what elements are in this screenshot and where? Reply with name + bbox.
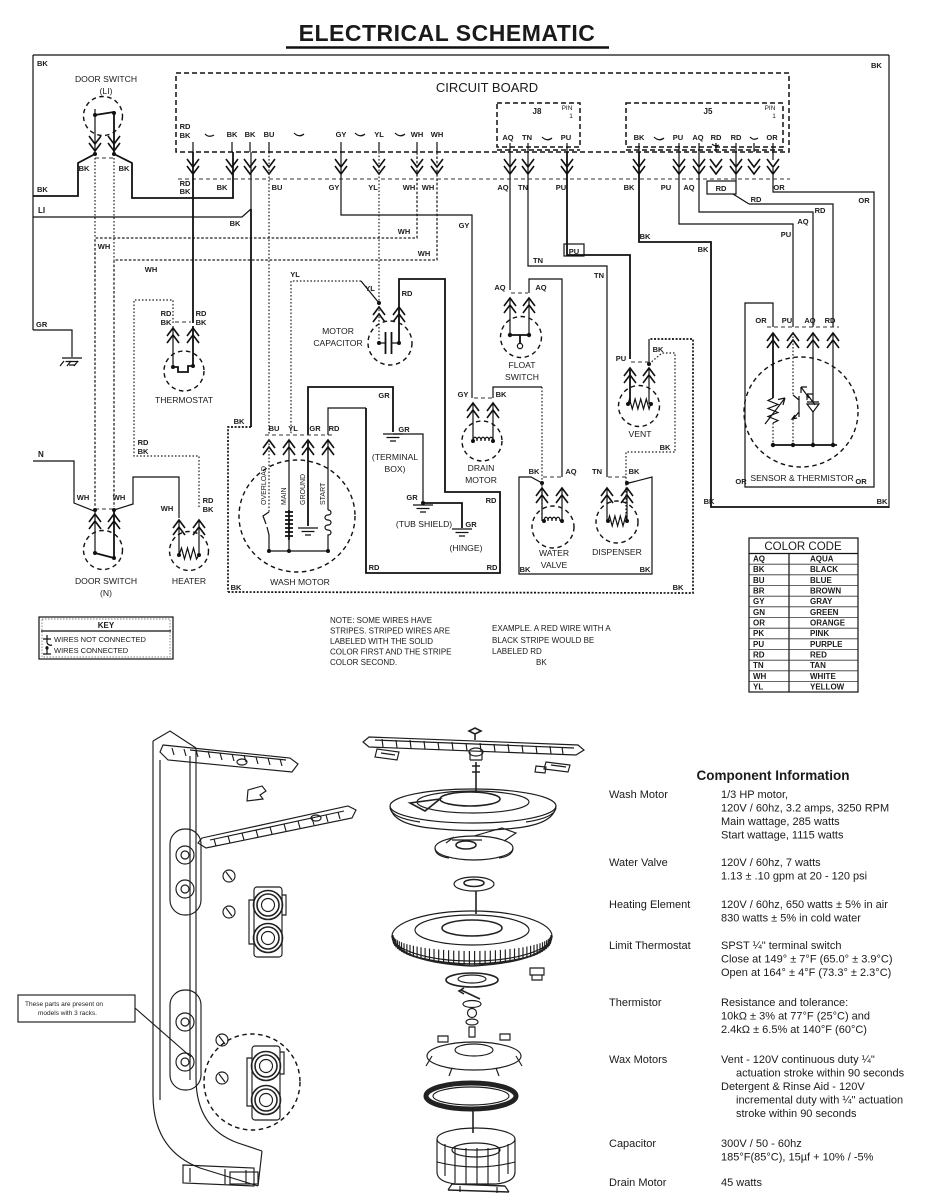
water valve solenoid dashed circle: [532, 506, 574, 548]
svg-text:WASH MOTOR: WASH MOTOR: [270, 577, 330, 587]
svg-text:RD: RD: [716, 184, 727, 193]
wire WH heater to door switch N: [114, 477, 179, 518]
svg-text:300V / 50 - 60hz: 300V / 50 - 60hz: [721, 1138, 802, 1150]
float switch S2 dashed circle: [501, 317, 542, 358]
wire TN J8 run to dispenser: [528, 152, 607, 477]
svg-text:RD: RD: [161, 309, 172, 318]
svg-text:OVERLOAD: OVERLOAD: [261, 466, 268, 505]
opto transistor Q1: [792, 333, 794, 395]
svg-text:AQ: AQ: [692, 133, 703, 142]
heater R1 dashed circle: [170, 532, 209, 571]
key symbol wires not connected: [43, 635, 52, 645]
svg-text:DISPENSER: DISPENSER: [592, 547, 642, 557]
svg-text:YL: YL: [365, 284, 375, 293]
wire GY from circuit board to drain motor: [341, 152, 472, 398]
svg-text:START: START: [320, 482, 327, 505]
svg-text:TAN: TAN: [810, 661, 826, 670]
upper dome (spray support): [390, 789, 556, 823]
svg-text:EXAMPLE. A RED WIRE WITH A: EXAMPLE. A RED WIRE WITH A: [492, 624, 611, 633]
svg-text:YL: YL: [290, 270, 300, 279]
water valve stub: [543, 476, 561, 478]
squiggle hooks between pins: [205, 133, 758, 146]
boxed RD label under J5: [707, 181, 736, 194]
svg-text:THERMOSTAT: THERMOSTAT: [155, 395, 214, 405]
svg-text:RD: RD: [487, 563, 498, 572]
svg-text:WH: WH: [113, 493, 126, 502]
svg-text:PINK: PINK: [810, 629, 829, 638]
wash motor bottom bus: [269, 550, 328, 552]
svg-text:PU: PU: [781, 230, 791, 239]
svg-text:AQUA: AQUA: [810, 555, 834, 564]
vent stub: [631, 361, 648, 363]
svg-text:BK: BK: [180, 187, 191, 196]
svg-text:PU: PU: [561, 133, 571, 142]
svg-text:YL: YL: [368, 183, 378, 192]
svg-text:BK: BK: [877, 497, 888, 506]
svg-text:BK: BK: [227, 130, 238, 139]
thermostat S1 dashed circle: [164, 351, 204, 391]
svg-text:RD: RD: [203, 496, 214, 505]
svg-text:GY: GY: [329, 183, 340, 192]
svg-text:WIRES NOT CONNECTED: WIRES NOT CONNECTED: [54, 635, 147, 644]
dashed highlight circle: [204, 1034, 300, 1130]
svg-text:Heating Element: Heating Element: [609, 899, 690, 911]
svg-text:COLOR SECOND.: COLOR SECOND.: [330, 658, 397, 667]
svg-text:BK: BK: [138, 447, 149, 456]
svg-text:PIN: PIN: [765, 105, 776, 112]
svg-text:RED: RED: [810, 651, 827, 660]
svg-text:WH: WH: [753, 672, 767, 681]
svg-text:PU: PU: [661, 183, 671, 192]
svg-text:BK: BK: [640, 232, 651, 241]
svg-text:AQ: AQ: [535, 283, 546, 292]
svg-text:Resistance and tolerance:: Resistance and tolerance:: [721, 997, 848, 1009]
door switch N terminal stub: [95, 508, 114, 510]
svg-text:GY: GY: [753, 597, 765, 606]
svg-text:1: 1: [569, 113, 573, 120]
svg-text:120V / 60hz, 3.2 amps, 3250 RP: 120V / 60hz, 3.2 amps, 3250 RPM: [721, 803, 889, 815]
svg-text:WATER: WATER: [539, 548, 569, 558]
svg-text:LI: LI: [38, 206, 45, 215]
float switch contacts: [509, 298, 511, 335]
svg-text:BK: BK: [180, 131, 191, 140]
pin stubs crossing board edge: [193, 142, 773, 152]
svg-text:BK: BK: [624, 183, 635, 192]
svg-text:RD: RD: [731, 133, 742, 142]
vent wax motor dashed circle: [619, 386, 660, 427]
svg-text:BK: BK: [871, 61, 882, 70]
svg-text:WIRES CONNECTED: WIRES CONNECTED: [54, 646, 129, 655]
svg-text:BLACK: BLACK: [810, 565, 838, 574]
svg-text:RD: RD: [180, 122, 191, 131]
svg-text:NOTE: SOME WIRES HAVE: NOTE: SOME WIRES HAVE: [330, 616, 432, 625]
svg-text:BK: BK: [234, 417, 245, 426]
thermistor RT1: [772, 333, 774, 398]
svg-text:AQ: AQ: [565, 467, 576, 476]
door switch N contacts and blade: [94, 510, 96, 553]
svg-text:OR: OR: [766, 133, 778, 142]
svg-text:WH: WH: [422, 183, 435, 192]
svg-text:WH: WH: [145, 265, 158, 274]
door switch N dashed circle: [84, 531, 123, 570]
svg-text:TN: TN: [533, 256, 543, 265]
svg-text:WH: WH: [98, 242, 111, 251]
svg-text:RD: RD: [369, 563, 380, 572]
svg-text:BK: BK: [673, 583, 684, 592]
gasket ring: [426, 1083, 516, 1109]
svg-text:ORANGE: ORANGE: [810, 619, 846, 628]
svg-text:BLUE: BLUE: [810, 576, 832, 585]
svg-text:actuation stroke within 90 sec: actuation stroke within 90 seconds: [736, 1068, 905, 1080]
svg-text:AQ: AQ: [502, 133, 513, 142]
svg-text:BU: BU: [753, 576, 765, 585]
water valve coil: [541, 488, 543, 521]
capacitor C1 symbol: [377, 341, 381, 345]
svg-text:Component Information: Component Information: [697, 768, 850, 783]
svg-text:OR: OR: [773, 183, 785, 192]
center bolt: [469, 728, 481, 740]
svg-text:GN: GN: [753, 608, 765, 617]
svg-text:PU: PU: [673, 133, 683, 142]
impeller gear ring: [392, 911, 552, 961]
wire WH upper bus from circuit board to door switch N: [95, 152, 417, 507]
frame top (BK): [33, 54, 889, 56]
svg-text:BU: BU: [269, 424, 280, 433]
arm hub left bracket: [375, 749, 399, 760]
svg-text:BLACK STRIPE WOULD BE: BLACK STRIPE WOULD BE: [492, 636, 594, 645]
connector J8: [497, 103, 580, 147]
svg-text:BK: BK: [753, 565, 765, 574]
svg-text:OR: OR: [753, 619, 765, 628]
svg-text:WH: WH: [161, 504, 174, 513]
svg-text:models with 3 racks.: models with 3 racks.: [38, 1010, 97, 1017]
svg-text:WH: WH: [398, 227, 411, 236]
wash motor MAIN winding: [288, 440, 290, 510]
svg-text:incremental duty with ¼" actua: incremental duty with ¼" actuation: [736, 1095, 903, 1107]
drain motor stub: [474, 397, 492, 399]
arm hub right bracket: [544, 762, 570, 772]
lower connector block: [252, 1046, 280, 1120]
svg-text:stroke within 90 seconds: stroke within 90 seconds: [736, 1108, 857, 1120]
svg-text:LABELED WITH THE SOLID: LABELED WITH THE SOLID: [330, 637, 433, 646]
wire OR J5 to sensor loop: [745, 152, 874, 487]
svg-text:OR: OR: [855, 477, 867, 486]
top spray arm: [160, 745, 298, 772]
ground terminal box: [383, 434, 403, 441]
side screws upper: [223, 870, 235, 882]
svg-text:BR: BR: [753, 587, 765, 596]
svg-text:OR: OR: [858, 196, 870, 205]
harness dashed line below board: [178, 178, 790, 180]
svg-text:BK: BK: [37, 185, 48, 194]
shaft: [472, 762, 480, 793]
svg-text:Limit Thermostat: Limit Thermostat: [609, 940, 691, 952]
svg-text:BK: BK: [245, 130, 256, 139]
dispenser wax motor dashed circle: [596, 501, 638, 543]
wire GR tub shield to hinge: [423, 503, 462, 528]
svg-text:RD: RD: [196, 309, 207, 318]
svg-text:AQ: AQ: [753, 555, 765, 564]
svg-text:PIN: PIN: [562, 105, 573, 112]
drain/wash motor body: [437, 1128, 515, 1150]
svg-text:185°F(85°C), 15µf + 10% / -5%: 185°F(85°C), 15µf + 10% / -5%: [721, 1152, 874, 1164]
svg-text:DOOR SWITCH: DOOR SWITCH: [75, 576, 137, 586]
wire AQ J8 to float switch left: [509, 152, 511, 290]
svg-text:KEY: KEY: [98, 621, 115, 630]
svg-text:BK: BK: [698, 245, 709, 254]
frame left (BK): [32, 55, 34, 330]
wire BK vent right up to bottom bus corner: [648, 339, 650, 364]
svg-text:TN: TN: [522, 133, 532, 142]
sensor RD lead: [832, 333, 834, 445]
svg-text:BK: BK: [653, 345, 664, 354]
svg-text:(LI): (LI): [100, 86, 113, 96]
wire BK water valve loop to dispenser: [519, 477, 652, 574]
svg-text:PK: PK: [753, 629, 764, 638]
upper capsule on tube: [170, 829, 201, 915]
svg-text:PU: PU: [569, 247, 579, 256]
vent coil: [629, 368, 631, 404]
svg-text:(TERMINAL: (TERMINAL: [372, 452, 419, 462]
svg-text:1/3 HP motor,: 1/3 HP motor,: [721, 789, 788, 801]
svg-text:Drain Motor: Drain Motor: [609, 1177, 667, 1189]
svg-text:VALVE: VALVE: [541, 560, 568, 570]
svg-text:Main wattage, 285 watts: Main wattage, 285 watts: [721, 816, 840, 828]
wire GR terminal box to tub shield: [393, 434, 423, 503]
wire BU from circuit board to wash motor: [268, 152, 270, 435]
svg-text:OR: OR: [755, 316, 767, 325]
dispenser coil: [606, 488, 608, 521]
svg-text:Start wattage, 1115 watts: Start wattage, 1115 watts: [721, 830, 844, 842]
svg-text:GR: GR: [406, 493, 418, 502]
svg-text:WH: WH: [418, 249, 431, 258]
svg-text:GY: GY: [458, 390, 469, 399]
svg-text:2.4kΩ ± 6.5% at 140°F (60°C): 2.4kΩ ± 6.5% at 140°F (60°C): [721, 1024, 867, 1036]
sensor stub: [767, 326, 839, 328]
svg-text:(TUB SHIELD): (TUB SHIELD): [396, 519, 452, 529]
svg-text:BK: BK: [37, 59, 48, 68]
wire BK vent to dispenser: [626, 353, 675, 519]
svg-text:BU: BU: [272, 183, 283, 192]
svg-text:Wash Motor: Wash Motor: [609, 789, 668, 801]
svg-text:YL: YL: [288, 424, 298, 433]
svg-text:OR: OR: [735, 477, 747, 486]
svg-text:BOX): BOX): [384, 464, 405, 474]
svg-text:BK: BK: [496, 390, 507, 399]
svg-text:BK: BK: [660, 443, 671, 452]
svg-text:PU: PU: [753, 640, 764, 649]
connector arrows below circuit board: [187, 159, 199, 174]
wire BK bottom bus: [228, 339, 693, 593]
svg-text:Water Valve: Water Valve: [609, 857, 668, 869]
sensor & thermistor dashed circle: [744, 357, 858, 467]
wire PU J8 run to vent: [567, 152, 630, 359]
svg-text:VENT: VENT: [629, 429, 653, 439]
svg-text:RD: RD: [486, 496, 497, 505]
svg-text:BROWN: BROWN: [810, 587, 841, 596]
svg-text:BK: BK: [629, 467, 640, 476]
key legend box: [39, 617, 173, 659]
svg-text:PU: PU: [556, 183, 566, 192]
flat disc washer: [454, 877, 494, 891]
svg-text:GROUND: GROUND: [300, 474, 307, 505]
svg-text:BK: BK: [203, 505, 214, 514]
svg-text:RD: RD: [402, 289, 413, 298]
svg-text:10kΩ ± 3% at 77°F (25°C) and: 10kΩ ± 3% at 77°F (25°C) and: [721, 1011, 870, 1023]
svg-text:Open at 164° ± 4°F (73.3° ± 2.: Open at 164° ± 4°F (73.3° ± 2.3°C): [721, 967, 891, 979]
wire BK J5 to sensor box: [639, 152, 889, 507]
top wash arm blade: [363, 737, 584, 755]
upper connector block: [254, 887, 282, 957]
side screws lower: [216, 1034, 228, 1046]
svg-text:GR: GR: [309, 424, 321, 433]
svg-text:BK: BK: [529, 467, 540, 476]
svg-text:CIRCUIT BOARD: CIRCUIT BOARD: [436, 80, 538, 95]
wash motor M1 dashed circle: [239, 460, 355, 572]
svg-text:PU: PU: [616, 354, 626, 363]
circuit board U1 dashed box: [176, 73, 789, 152]
door switch (LI) terminal dashed stub: [95, 157, 114, 159]
svg-text:DRAIN: DRAIN: [468, 463, 495, 473]
svg-text:120V / 60hz, 7 watts: 120V / 60hz, 7 watts: [721, 857, 821, 869]
svg-text:GY: GY: [336, 130, 347, 139]
svg-text:Detergent & Rinse Aid - 120V: Detergent & Rinse Aid - 120V: [721, 1081, 865, 1093]
svg-text:J8: J8: [533, 107, 542, 116]
svg-text:BK: BK: [704, 497, 715, 506]
svg-text:AQ: AQ: [804, 316, 815, 325]
svg-text:YELLOW: YELLOW: [810, 683, 845, 692]
wire RD J5 to sensor: [736, 152, 833, 327]
svg-text:RD: RD: [711, 133, 722, 142]
svg-text:BK: BK: [79, 164, 90, 173]
callout box 3 racks: [18, 995, 135, 1022]
svg-text:MOTOR: MOTOR: [465, 475, 497, 485]
svg-text:BK: BK: [536, 658, 547, 667]
motor capacitor C1 dashed circle: [368, 321, 412, 365]
ground chassis left: [62, 358, 82, 365]
wire RD/BK from circuit board to thermostat right: [192, 152, 194, 323]
svg-text:RD: RD: [825, 316, 836, 325]
svg-text:GREEN: GREEN: [810, 608, 839, 617]
svg-text:BK: BK: [119, 164, 130, 173]
svg-text:AQ: AQ: [683, 183, 694, 192]
photo diode D1: [807, 333, 819, 445]
svg-text:MAIN: MAIN: [281, 488, 288, 506]
lower capsule on tube: [170, 990, 201, 1090]
svg-text:BK: BK: [217, 183, 228, 192]
wash motor START winding: [327, 440, 329, 510]
frame right (BK): [888, 55, 890, 508]
ground tub shield: [413, 505, 433, 512]
small plug right: [530, 968, 544, 980]
small cap right: [535, 766, 546, 773]
seal stack: [446, 973, 498, 987]
ground hinge: [452, 529, 472, 536]
wire RD/BK thermostat left loop: [134, 300, 199, 508]
wire WH continuation door LI to WH buses: [95, 158, 114, 260]
boxed PU label: [564, 244, 584, 256]
wire AQ J5 to sensor: [699, 152, 813, 327]
svg-text:ELECTRICAL SCHEMATIC: ELECTRICAL SCHEMATIC: [299, 20, 596, 46]
svg-text:(N): (N): [100, 588, 112, 598]
pump top bracket: [435, 836, 513, 860]
svg-text:45 watts: 45 watts: [721, 1177, 762, 1189]
svg-text:RD: RD: [751, 195, 762, 204]
svg-text:J5: J5: [704, 107, 713, 116]
svg-text:BK: BK: [231, 583, 242, 592]
svg-text:RD: RD: [753, 651, 765, 660]
float switch stub: [511, 292, 528, 294]
wash motor arrows: [263, 440, 275, 455]
svg-text:AQ: AQ: [497, 183, 508, 192]
svg-text:Close at 149° ± 7°F (65.0° ± 3: Close at 149° ± 7°F (65.0° ± 3.9°C): [721, 954, 893, 966]
svg-text:HEATER: HEATER: [172, 576, 206, 586]
motor capacitor arrows: [373, 307, 385, 322]
svg-text:SENSOR & THERMISTOR: SENSOR & THERMISTOR: [750, 473, 853, 483]
door switch (LI) dashed circle: [84, 97, 123, 136]
svg-text:AQ: AQ: [494, 283, 505, 292]
support plate: [427, 1042, 521, 1070]
svg-text:BK: BK: [520, 565, 531, 574]
wire PU J5 to sensor: [679, 152, 793, 327]
svg-text:TN: TN: [753, 661, 764, 670]
svg-text:PU: PU: [782, 316, 792, 325]
wire AQ float right to water valve: [529, 279, 562, 477]
svg-text:PURPLE: PURPLE: [810, 640, 843, 649]
svg-text:WH: WH: [411, 130, 424, 139]
small bracket: [247, 786, 266, 801]
rack rail tube (L shape): [153, 741, 262, 1186]
svg-text:GR: GR: [36, 320, 48, 329]
svg-text:FLOAT: FLOAT: [508, 360, 536, 370]
svg-text:LABELED RD: LABELED RD: [492, 647, 542, 656]
short shaft: [475, 891, 477, 914]
svg-text:GR: GR: [378, 391, 390, 400]
svg-text:1.13 ± .10 gpm at 20 - 120 psi: 1.13 ± .10 gpm at 20 - 120 psi: [721, 871, 867, 883]
svg-text:Thermistor: Thermistor: [609, 997, 662, 1009]
wire BK bus from left frame to door switch LI: [33, 154, 95, 196]
thermostat terminal stub: [175, 321, 191, 323]
wash motor GROUND lead: [307, 440, 309, 526]
wire BK drain to water valve: [493, 387, 542, 398]
svg-text:RD: RD: [815, 206, 826, 215]
svg-text:WHITE: WHITE: [810, 672, 836, 681]
wire BK2 heavy from LI jog down to wash motor enclosure: [250, 209, 252, 427]
svg-text:TN: TN: [594, 271, 604, 280]
svg-text:WH: WH: [77, 493, 90, 502]
drain motor M2 dashed circle: [462, 421, 502, 461]
svg-text:RD: RD: [329, 424, 340, 433]
svg-text:830 watts ± 5% in cold water: 830 watts ± 5% in cold water: [721, 913, 861, 925]
svg-text:These parts are present on: These parts are present on: [25, 1001, 103, 1008]
svg-text:BK: BK: [196, 318, 207, 327]
svg-text:TN: TN: [592, 467, 602, 476]
svg-text:BU: BU: [264, 130, 275, 139]
spindle fitting: [469, 748, 483, 756]
wire YL from circuit board to wash motor and capacitor branch: [378, 152, 380, 343]
svg-text:DOOR SWITCH: DOOR SWITCH: [75, 74, 137, 84]
svg-text:Vent - 120V continuous duty ¼": Vent - 120V continuous duty ¼": [721, 1054, 875, 1066]
svg-text:STRIPES. STRIPED WIRES ARE: STRIPES. STRIPED WIRES ARE: [330, 627, 450, 636]
door switch (LI) contacts: [93, 113, 97, 117]
photo arrows: [801, 387, 815, 405]
bottom foot: [183, 1165, 254, 1186]
key symbol wires connected: [43, 646, 51, 654]
wash motor terminal dashed stub: [265, 434, 333, 436]
svg-text:GRAY: GRAY: [810, 597, 833, 606]
wire BK from door switch LI right contact to circuit board BK pin: [114, 152, 233, 198]
wire WH lower bus from circuit board to door switch N: [114, 152, 437, 507]
